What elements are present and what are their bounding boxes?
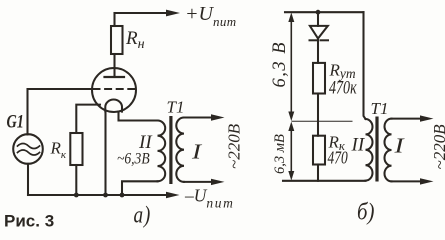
wire Rn bottom to anode <box>113 54 115 77</box>
wire bottom rail b <box>283 180 366 182</box>
tube V1 envelope <box>92 68 136 112</box>
wire cathode right leg to winding <box>119 112 158 121</box>
wire Rn top lead <box>113 13 115 26</box>
tube V1 cathode heater arch <box>105 100 122 112</box>
junction dot cathode-rail <box>103 193 108 198</box>
svg-text:470: 470 <box>328 149 348 168</box>
svg-text:а): а) <box>134 202 152 229</box>
tube V1 grid (dashed) <box>93 88 136 90</box>
wire Rk bottom lead <box>75 165 77 195</box>
dimension tick line <box>292 120 352 122</box>
node 220V bottom arrow a <box>211 179 225 185</box>
diode VD1 <box>310 26 328 39</box>
wire Rut to Rk2 <box>317 94 319 136</box>
generator G1 <box>13 134 43 164</box>
svg-text:Rк: Rк <box>50 139 67 162</box>
transformer T1b winding I <box>384 119 391 182</box>
transformer T1a winding II <box>158 121 166 182</box>
node 220V top arrow a <box>211 114 225 120</box>
wire grid to G1 <box>28 89 93 135</box>
svg-text:–Uпит: –Uпит <box>184 186 234 211</box>
wire Rk top lead <box>76 105 100 133</box>
resistor Rk <box>70 133 82 165</box>
svg-text:~6,3В: ~6,3В <box>117 151 150 168</box>
generator G1 wave symbol <box>18 144 40 149</box>
wire cathode left leg down <box>104 111 106 196</box>
wire diode top lead <box>317 12 319 26</box>
resistor Rut <box>313 63 325 94</box>
svg-text:T1: T1 <box>167 98 185 117</box>
svg-text:~220В: ~220В <box>225 123 244 169</box>
transformer T1a core <box>169 116 172 184</box>
wire right branch to winding II b <box>364 12 366 119</box>
svg-text:470к: 470к <box>329 76 357 98</box>
svg-text:Rн: Rн <box>125 28 145 52</box>
svg-text:6,3 мВ: 6,3 мВ <box>272 134 288 174</box>
svg-text:б): б) <box>357 198 374 225</box>
wire G1 bottom to rail <box>27 164 29 195</box>
junction dot winding II-rail <box>120 193 125 198</box>
wire top rail a <box>115 12 169 14</box>
transformer T1b winding II <box>366 119 373 181</box>
node -Upit arrow <box>166 192 180 198</box>
junction dot diode-top rail <box>316 10 321 15</box>
transformer T1b core <box>375 117 378 182</box>
junction dot Rk-rail <box>74 193 79 198</box>
node 220V bottom arrow b <box>420 178 434 184</box>
transformer T1a winding I <box>176 118 184 182</box>
resistor Rk2 <box>313 136 325 165</box>
node +Upit arrow <box>166 10 180 17</box>
tube V1 anode plate <box>105 76 125 78</box>
svg-text:~220В: ~220В <box>430 124 445 170</box>
wire winding I b top lead <box>392 118 422 120</box>
node 220V top arrow b <box>420 115 434 121</box>
svg-text:I: I <box>191 140 203 163</box>
dimension 6.3V line <box>290 16 292 117</box>
diode VD1 cathode bar <box>310 39 317 41</box>
svg-text:+Uпит: +Uпит <box>185 3 237 29</box>
dimension 6.3mV line <box>290 125 292 177</box>
wire winding I b bottom lead <box>392 180 422 182</box>
wire winding I top lead <box>184 116 212 118</box>
svg-text:6,3 В: 6,3 В <box>270 41 290 88</box>
svg-text:G1: G1 <box>7 111 24 132</box>
wire winding II bottom lead <box>122 181 158 195</box>
wire winding I bottom lead <box>184 181 212 183</box>
wire Rk2 bottom lead <box>317 165 319 181</box>
wire diode to Rut <box>317 39 319 63</box>
wire bottom rail a <box>28 194 167 196</box>
svg-text:II: II <box>351 135 366 156</box>
wire top rail b <box>285 11 364 13</box>
resistor Rn <box>111 26 123 54</box>
svg-text:T1: T1 <box>371 99 389 118</box>
svg-text:I: I <box>393 134 405 157</box>
svg-text:Рис. 3: Рис. 3 <box>4 211 54 230</box>
